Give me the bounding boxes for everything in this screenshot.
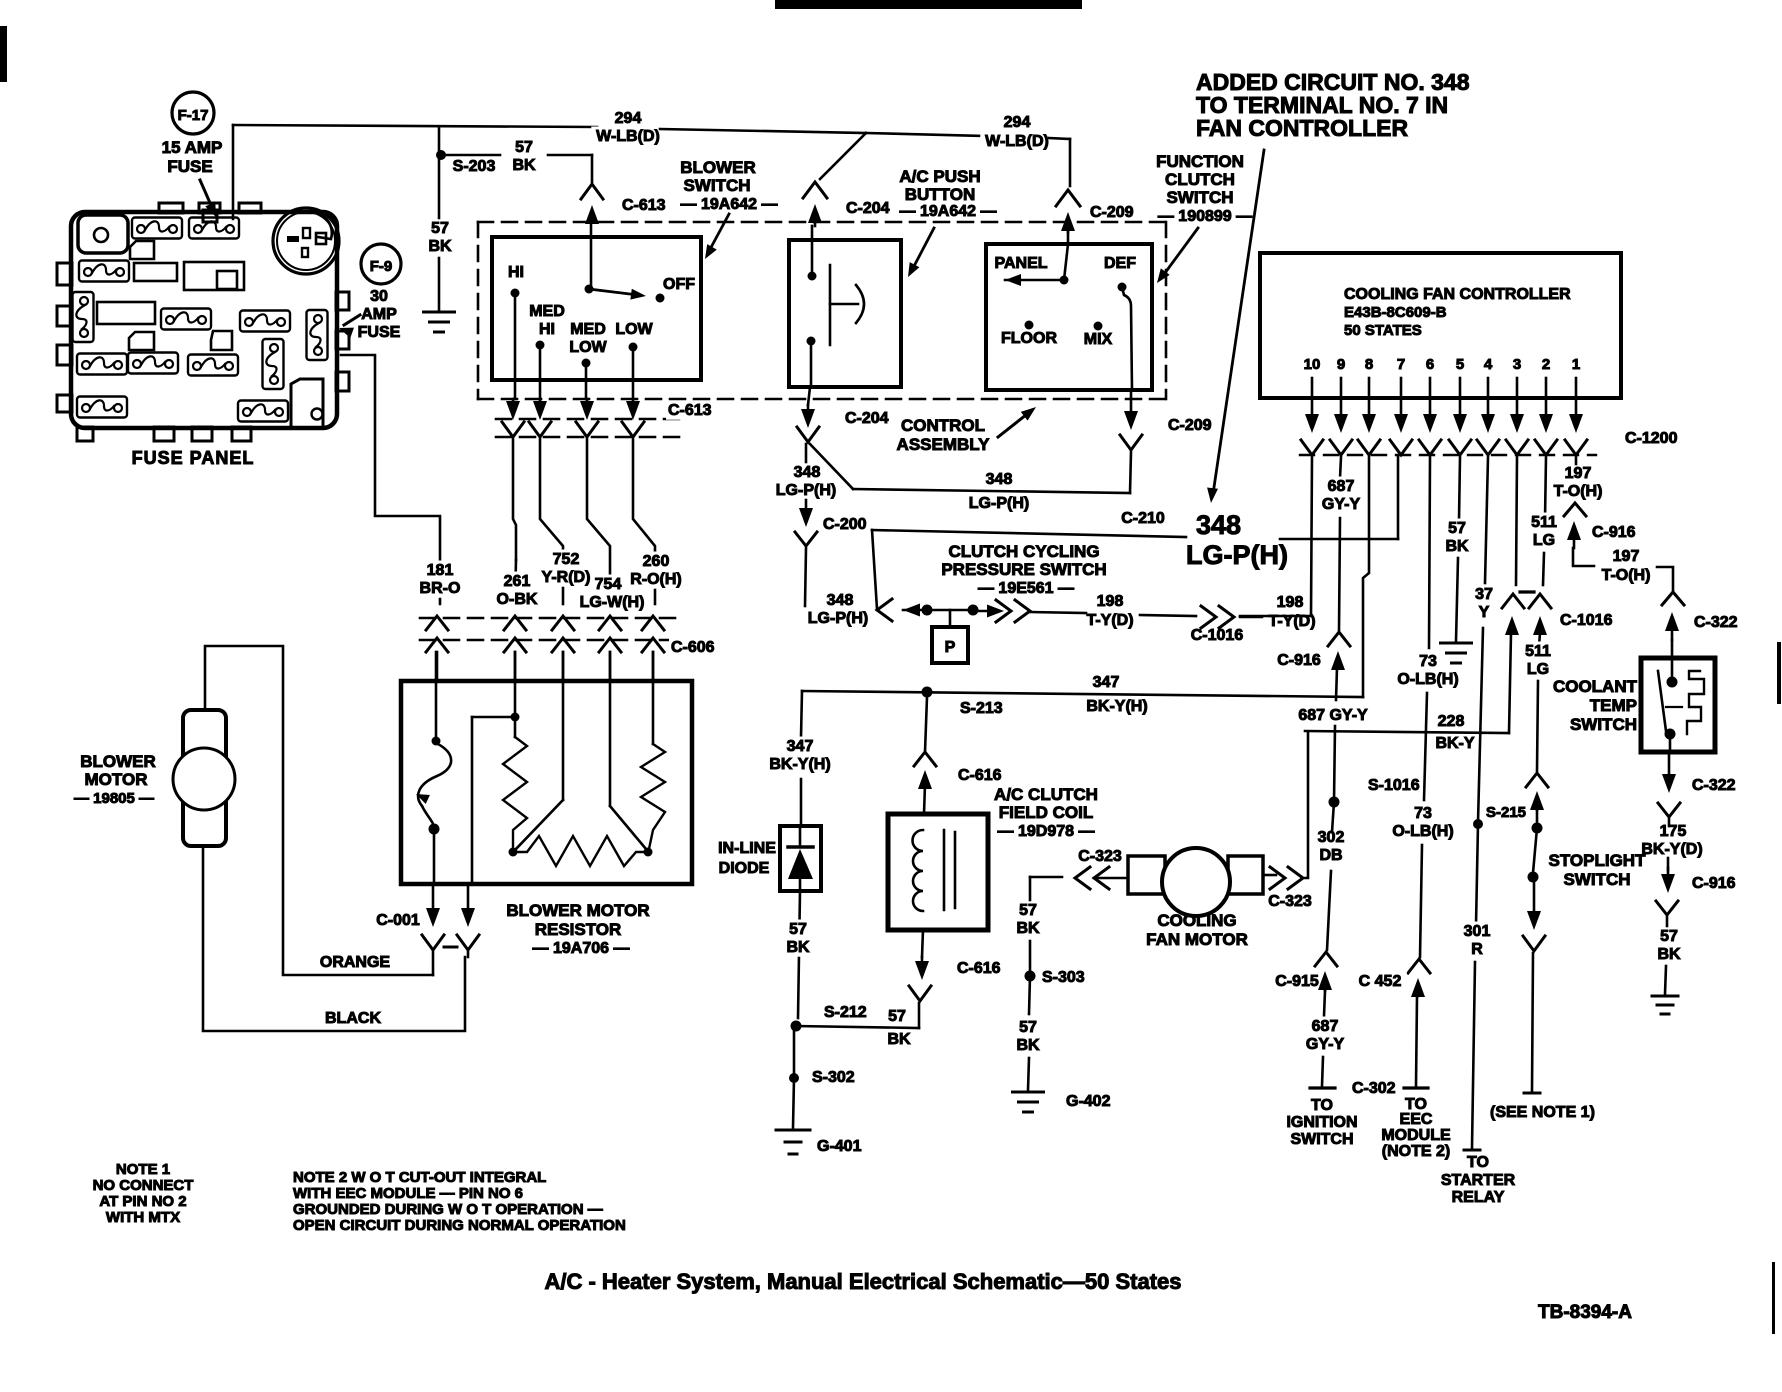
svg-text:BLOWER MOTOR: BLOWER MOTOR [506, 901, 649, 920]
svg-text:294: 294 [615, 110, 642, 127]
svg-text:C-001: C-001 [376, 912, 420, 929]
svg-text:— 19D978 —: — 19D978 — [998, 823, 1095, 840]
svg-text:COOLING FAN CONTROLLER: COOLING FAN CONTROLLER [1344, 286, 1571, 303]
svg-text:301: 301 [1464, 923, 1491, 940]
svg-text:C-616: C-616 [958, 767, 1002, 784]
svg-text:LG-P(H): LG-P(H) [776, 482, 836, 499]
svg-text:GY-Y: GY-Y [1306, 1036, 1345, 1053]
svg-text:F-17: F-17 [178, 107, 209, 124]
svg-text:687: 687 [1312, 1018, 1339, 1035]
svg-text:EEC: EEC [1400, 1111, 1433, 1128]
svg-text:C-1016: C-1016 [1191, 627, 1244, 644]
svg-text:O-LB(H): O-LB(H) [1392, 823, 1453, 840]
svg-text:57: 57 [1660, 928, 1678, 945]
svg-text:MED: MED [529, 303, 565, 320]
svg-text:SWITCH: SWITCH [1290, 1131, 1353, 1148]
svg-text:1: 1 [1572, 356, 1580, 373]
svg-text:HI: HI [539, 321, 555, 338]
svg-text:C-204: C-204 [846, 200, 890, 217]
svg-text:SWITCH: SWITCH [1166, 188, 1233, 207]
svg-text:BK: BK [1016, 920, 1040, 937]
svg-text:BK: BK [428, 238, 452, 255]
svg-text:687 GY-Y: 687 GY-Y [1298, 707, 1368, 724]
svg-text:AMP: AMP [361, 306, 397, 323]
svg-text:C-606: C-606 [671, 639, 715, 656]
svg-text:C-613: C-613 [622, 197, 666, 214]
svg-text:— 19E561 —: — 19E561 — [978, 580, 1074, 597]
svg-text:R: R [1471, 941, 1483, 958]
svg-text:2: 2 [1542, 356, 1550, 373]
svg-text:MIX: MIX [1084, 331, 1113, 348]
svg-text:BK-Y(H): BK-Y(H) [769, 756, 830, 773]
svg-text:— 19A706 —: — 19A706 — [533, 940, 630, 957]
svg-text:57: 57 [515, 139, 533, 156]
svg-text:197: 197 [1613, 548, 1640, 565]
svg-text:BK: BK [1445, 538, 1469, 555]
svg-text:LOW: LOW [615, 321, 653, 338]
svg-text:LG-P(H): LG-P(H) [1186, 540, 1288, 570]
svg-text:FAN CONTROLLER: FAN CONTROLLER [1196, 115, 1408, 141]
svg-text:IN-LINE: IN-LINE [718, 840, 776, 857]
svg-text:OFF: OFF [663, 276, 695, 293]
svg-text:BK: BK [1657, 946, 1681, 963]
svg-text:S-303: S-303 [1042, 969, 1085, 986]
svg-text:7: 7 [1397, 356, 1405, 373]
svg-text:PANEL: PANEL [994, 255, 1047, 272]
svg-text:C-323: C-323 [1078, 848, 1122, 865]
svg-text:C-915: C-915 [1275, 973, 1319, 990]
svg-text:BLOWER: BLOWER [80, 752, 156, 771]
svg-text:TO: TO [1311, 1097, 1333, 1114]
svg-text:S-212: S-212 [824, 1004, 867, 1021]
svg-text:TO: TO [1467, 1154, 1489, 1171]
svg-text:347: 347 [787, 738, 814, 755]
svg-text:C-916: C-916 [1277, 652, 1321, 669]
svg-text:BK: BK [1016, 1037, 1040, 1054]
svg-text:181: 181 [427, 562, 454, 579]
svg-text:C-200: C-200 [823, 516, 867, 533]
svg-text:754: 754 [595, 576, 622, 593]
svg-text:C-323: C-323 [1268, 893, 1312, 910]
svg-text:198: 198 [1097, 593, 1124, 610]
svg-text:CONTROL: CONTROL [901, 416, 985, 435]
svg-text:S-1016: S-1016 [1368, 777, 1420, 794]
svg-text:FUSE: FUSE [167, 157, 212, 176]
svg-text:228: 228 [1438, 713, 1465, 730]
svg-text:C-209: C-209 [1090, 204, 1134, 221]
svg-text:A/C CLUTCH: A/C CLUTCH [994, 785, 1098, 804]
svg-text:BK-Y(H): BK-Y(H) [1086, 698, 1147, 715]
svg-text:37: 37 [1475, 586, 1493, 603]
svg-text:W-LB(D): W-LB(D) [596, 128, 660, 145]
svg-text:S-203: S-203 [453, 158, 496, 175]
svg-text:W-LB(D): W-LB(D) [985, 133, 1049, 150]
svg-text:BK-Y: BK-Y [1435, 735, 1474, 752]
svg-text:SWITCH: SWITCH [683, 176, 750, 195]
svg-text:C-210: C-210 [1121, 510, 1165, 527]
svg-text:4: 4 [1484, 356, 1493, 373]
svg-text:CLUTCH CYCLING: CLUTCH CYCLING [948, 542, 1099, 561]
svg-text:C-204: C-204 [845, 410, 889, 427]
svg-text:Y: Y [1479, 604, 1490, 621]
svg-text:BK: BK [786, 939, 810, 956]
svg-text:C-209: C-209 [1168, 417, 1212, 434]
svg-text:687: 687 [1328, 478, 1355, 495]
svg-text:15 AMP: 15 AMP [162, 138, 223, 157]
svg-text:(NOTE 2): (NOTE 2) [1382, 1143, 1450, 1160]
svg-text:BK-Y(D): BK-Y(D) [1641, 841, 1702, 858]
svg-text:C-916: C-916 [1692, 875, 1736, 892]
svg-text:57: 57 [1448, 520, 1466, 537]
svg-text:FLOOR: FLOOR [1001, 330, 1057, 347]
svg-text:198: 198 [1277, 594, 1304, 611]
svg-text:BK: BK [887, 1031, 911, 1048]
svg-text:LG-P(H): LG-P(H) [808, 610, 868, 627]
svg-text:FUNCTION: FUNCTION [1156, 152, 1244, 171]
svg-text:C-322: C-322 [1694, 614, 1738, 631]
svg-text:STARTER: STARTER [1441, 1172, 1516, 1189]
svg-text:ORANGE: ORANGE [320, 954, 391, 971]
svg-text:C-322: C-322 [1692, 777, 1736, 794]
svg-text:A/C PUSH: A/C PUSH [899, 167, 980, 186]
svg-text:511: 511 [1531, 514, 1557, 531]
svg-text:E43B-8C609-B: E43B-8C609-B [1344, 304, 1447, 321]
svg-text:C-302: C-302 [1352, 1080, 1396, 1097]
svg-text:MODULE: MODULE [1381, 1127, 1451, 1144]
svg-text:— 19805 —: — 19805 — [74, 790, 154, 807]
svg-text:PRESSURE SWITCH: PRESSURE SWITCH [941, 560, 1106, 579]
svg-text:FIELD COIL: FIELD COIL [999, 803, 1093, 822]
svg-text:— 19A642 —: — 19A642 — [900, 203, 997, 220]
svg-text:348: 348 [827, 592, 854, 609]
svg-text:RELAY: RELAY [1452, 1189, 1505, 1206]
svg-text:OPEN CIRCUIT DURING NORMAL OPE: OPEN CIRCUIT DURING NORMAL OPERATION [293, 1217, 626, 1234]
svg-text:C-616: C-616 [957, 960, 1001, 977]
svg-text:CLUTCH: CLUTCH [1165, 170, 1235, 189]
svg-text:C 452: C 452 [1359, 973, 1402, 990]
svg-text:347: 347 [1093, 674, 1120, 691]
svg-text:COOLANT: COOLANT [1553, 677, 1638, 696]
svg-text:A/C - Heater System, Manual El: A/C - Heater System, Manual Electrical S… [544, 1269, 1181, 1294]
svg-text:30: 30 [370, 288, 388, 305]
svg-text:261: 261 [504, 573, 531, 590]
svg-text:T-Y(D): T-Y(D) [1086, 612, 1133, 629]
svg-text:73: 73 [1419, 653, 1437, 670]
svg-text:57: 57 [1019, 1019, 1037, 1036]
svg-text:F-9: F-9 [370, 258, 393, 275]
svg-text:6: 6 [1426, 356, 1434, 373]
svg-text:IGNITION: IGNITION [1286, 1114, 1357, 1131]
svg-text:O-BK: O-BK [497, 591, 538, 608]
svg-text:FAN MOTOR: FAN MOTOR [1146, 930, 1248, 949]
svg-text:P: P [945, 639, 956, 656]
svg-text:294: 294 [1004, 114, 1031, 131]
svg-text:— 190899 —: — 190899 — [1158, 208, 1252, 225]
svg-text:Y-R(D): Y-R(D) [542, 569, 591, 586]
svg-text:S-215: S-215 [1486, 804, 1526, 821]
svg-text:FUSE PANEL: FUSE PANEL [132, 448, 255, 468]
svg-text:O-LB(H): O-LB(H) [1397, 671, 1458, 688]
svg-text:C-1200: C-1200 [1625, 430, 1678, 447]
svg-text:3: 3 [1513, 356, 1521, 373]
svg-text:260: 260 [643, 553, 670, 570]
svg-text:GROUNDED DURING W O T OPERATIO: GROUNDED DURING W O T OPERATION — [293, 1201, 603, 1218]
svg-text:AT PIN NO 2: AT PIN NO 2 [99, 1193, 186, 1210]
svg-text:SWITCH: SWITCH [1570, 715, 1637, 734]
svg-text:C-1016: C-1016 [1560, 612, 1613, 629]
svg-text:BLACK: BLACK [325, 1010, 381, 1027]
svg-text:HI: HI [508, 264, 524, 281]
svg-text:LG: LG [1527, 661, 1549, 678]
svg-text:MED: MED [570, 321, 606, 338]
svg-text:WITH MTX: WITH MTX [106, 1209, 180, 1226]
svg-text:FUSE: FUSE [358, 324, 401, 341]
svg-text:NOTE 2 W O T CUT-OUT INTEGRAL: NOTE 2 W O T CUT-OUT INTEGRAL [293, 1169, 546, 1186]
svg-text:9: 9 [1337, 356, 1345, 373]
svg-text:10: 10 [1304, 356, 1321, 373]
svg-text:MOTOR: MOTOR [85, 770, 148, 789]
svg-text:NOTE 1: NOTE 1 [116, 1161, 170, 1178]
svg-text:175: 175 [1660, 823, 1687, 840]
svg-text:T-O(H): T-O(H) [1602, 567, 1651, 584]
svg-text:R-O(H): R-O(H) [630, 571, 682, 588]
svg-text:COOLING: COOLING [1157, 911, 1236, 930]
svg-text:50 STATES: 50 STATES [1344, 322, 1422, 339]
svg-text:LG-W(H): LG-W(H) [580, 594, 645, 611]
svg-text:57: 57 [888, 1008, 906, 1025]
svg-text:752: 752 [553, 551, 580, 568]
svg-text:8: 8 [1365, 356, 1373, 373]
svg-text:BLOWER: BLOWER [680, 158, 756, 177]
svg-text:348: 348 [794, 464, 821, 481]
svg-text:STOPLIGHT: STOPLIGHT [1549, 851, 1647, 870]
svg-text:TEMP: TEMP [1590, 696, 1637, 715]
svg-text:S-302: S-302 [812, 1069, 855, 1086]
svg-text:BUTTON: BUTTON [905, 185, 976, 204]
svg-text:S-213: S-213 [960, 700, 1003, 717]
svg-text:BK: BK [512, 157, 536, 174]
svg-text:511: 511 [1525, 643, 1551, 660]
svg-text:197: 197 [1565, 465, 1592, 482]
svg-text:DIODE: DIODE [719, 860, 770, 877]
svg-text:5: 5 [1456, 356, 1464, 373]
svg-text:57: 57 [1019, 902, 1037, 919]
svg-text:WITH EEC MODULE — PIN NO 6: WITH EEC MODULE — PIN NO 6 [293, 1185, 523, 1202]
svg-text:C-613: C-613 [668, 402, 712, 419]
svg-text:C-916: C-916 [1592, 524, 1636, 541]
svg-text:DEF: DEF [1104, 255, 1136, 272]
svg-text:LG: LG [1533, 532, 1555, 549]
svg-text:302: 302 [1318, 829, 1345, 846]
svg-text:BR-O: BR-O [420, 580, 461, 597]
svg-text:348: 348 [986, 471, 1013, 488]
svg-text:— 19A642 —: — 19A642 — [681, 196, 778, 213]
svg-text:(SEE NOTE 1): (SEE NOTE 1) [1490, 1104, 1595, 1121]
svg-text:57: 57 [431, 220, 449, 237]
svg-text:T-O(H): T-O(H) [1554, 483, 1603, 500]
svg-text:TB-8394-A: TB-8394-A [1538, 1302, 1632, 1323]
svg-text:348: 348 [1196, 510, 1241, 540]
svg-text:DB: DB [1319, 847, 1342, 864]
svg-text:G-402: G-402 [1066, 1093, 1111, 1110]
svg-text:RESISTOR: RESISTOR [535, 920, 622, 939]
svg-text:GY-Y: GY-Y [1322, 496, 1361, 513]
svg-text:ASSEMBLY: ASSEMBLY [897, 435, 991, 454]
svg-text:LG-P(H): LG-P(H) [969, 495, 1029, 512]
svg-text:NO CONNECT: NO CONNECT [93, 1177, 194, 1194]
svg-text:57: 57 [789, 921, 807, 938]
svg-text:73: 73 [1414, 805, 1432, 822]
svg-text:SWITCH: SWITCH [1563, 870, 1630, 889]
svg-text:G-401: G-401 [817, 1138, 862, 1155]
svg-text:LOW: LOW [569, 339, 607, 356]
